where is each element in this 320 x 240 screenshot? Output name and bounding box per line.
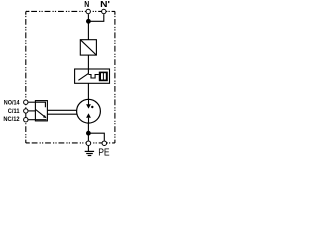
wire spark gap to bottom junction <box>87 123 89 140</box>
terminal N <box>86 9 90 13</box>
spark gap G1 (circle with facing arrows) <box>77 99 101 123</box>
top electrode arrow <box>88 99 90 104</box>
enclosure border bottom (dash-dot) <box>26 142 115 144</box>
wire switch unit to spark gap <box>87 83 89 99</box>
FM remote contact box <box>35 101 47 121</box>
node junction N/N' <box>86 19 91 24</box>
enclosure border corner stubs <box>26 11 115 143</box>
indicator block with two slots <box>99 72 108 82</box>
mechanical link double line lower <box>47 113 77 115</box>
terminal N' <box>102 9 106 13</box>
wire N' drop to junction <box>88 14 103 21</box>
svg-text:N: N <box>84 0 89 9</box>
disconnector F1 (box with diagonal) <box>80 40 96 55</box>
svg-text:NO/14: NO/14 <box>4 99 20 106</box>
wire terminal C/11 stub <box>28 110 35 112</box>
switch unit box with thermal disconnect <box>75 69 110 83</box>
svg-text:N': N' <box>100 0 110 9</box>
wire junction to PE terminal <box>88 133 104 140</box>
wire main vertical N to fuse <box>87 14 89 40</box>
bottom electrode arrow <box>88 118 90 123</box>
enclosure border right (dash-dot) <box>114 11 116 143</box>
svg-text:PE: PE <box>98 147 109 159</box>
terminal NO/14 <box>24 100 28 104</box>
changeover lever with arrow <box>36 110 44 117</box>
mechanical link double line upper <box>47 109 76 111</box>
terminal C/11 <box>24 109 28 113</box>
terminal PE <box>102 141 107 146</box>
terminal NC/12 <box>24 118 28 122</box>
node bottom junction <box>86 131 91 136</box>
trigger dot <box>91 106 93 108</box>
ground symbol <box>85 146 94 156</box>
svg-text:C/11: C/11 <box>8 108 20 115</box>
wire terminal NO/14 stub <box>28 101 35 103</box>
NO contact line with down tick <box>35 102 45 107</box>
enclosure border top (dash-dot) <box>26 10 115 12</box>
switch lever inside unit <box>78 69 88 80</box>
wire terminal NC/12 stub <box>28 119 35 121</box>
step line to indicator <box>88 75 98 79</box>
svg-text:NC/12: NC/12 <box>3 116 20 123</box>
terminal earth <box>86 141 91 146</box>
wire fuse to switch unit <box>87 55 89 69</box>
NC contact line <box>35 119 46 121</box>
enclosure border left (dash-dot) <box>25 11 27 143</box>
